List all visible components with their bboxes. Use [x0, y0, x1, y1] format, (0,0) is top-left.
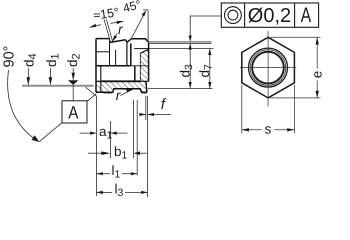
d7 dimension line	[209, 49, 211, 89]
d1 leader	[49, 68, 51, 84]
side view thread wall right	[130, 44, 132, 66]
d3 d7 extension bottom	[148, 88, 213, 90]
d1 arrow	[49, 77, 53, 85]
svg-text:d2: d2	[65, 53, 83, 67]
hexagon outline	[242, 37, 295, 98]
f extension left	[145, 96, 147, 120]
datum leader line	[39, 94, 96, 142]
svg-text:A: A	[301, 4, 311, 27]
r bottom arrow	[126, 89, 133, 92]
side view section top face	[131, 39, 149, 43]
bore circle	[252, 52, 284, 84]
side view section cut face line	[126, 42, 128, 66]
r top leader	[113, 34, 117, 41]
side view washer face line	[134, 48, 148, 50]
side view flange top line	[96, 80, 101, 82]
90° arc arrow	[32, 135, 40, 142]
d4 arrow	[27, 77, 31, 85]
bottom chain extension x=133.4	[132, 100, 134, 158]
e extension top	[270, 36, 320, 38]
side view left facet top edge	[96, 38, 110, 40]
side view flange right edge	[146, 81, 147, 92]
svg-text:l3: l3	[115, 181, 124, 199]
s extension right	[293, 85, 295, 134]
side view thread wall left stub	[115, 50, 117, 66]
15° left arrow	[90, 24, 97, 28]
bottom chain extension x=137.2	[136, 100, 138, 176]
d4 leader	[27, 68, 29, 85]
svg-text:s: s	[265, 122, 272, 137]
weld projection left	[104, 92, 113, 93]
d7 bottom arrow down	[208, 82, 211, 88]
datum stem	[72, 85, 74, 101]
side view hex facet corner line	[109, 39, 111, 67]
d3 bottom arrow down	[189, 82, 192, 88]
side view shoulder line (hex bottom)	[96, 65, 131, 67]
15° arc arrow shafts	[90, 25, 102, 28]
svg-text:90°: 90°	[1, 46, 17, 68]
bottom chain extension x=110.4	[109, 121, 111, 158]
e bottom arrow	[316, 91, 319, 98]
flange section hatching	[96, 82, 147, 92]
d7 top arrow up	[208, 49, 211, 55]
a1 right arrow	[110, 132, 116, 135]
feature control frame	[221, 3, 318, 27]
chamfer circle	[249, 48, 288, 87]
r bottom leader	[121, 89, 133, 95]
side view hole chamfer	[127, 39, 131, 43]
15° extension line right	[106, 19, 112, 41]
l3 left arrow	[96, 191, 102, 194]
centerline horizontal	[240, 67, 296, 69]
thread major arc	[250, 50, 286, 86]
side view bore wall	[134, 66, 136, 82]
b1 left arrow	[101, 151, 110, 155]
e extension bottom	[270, 97, 320, 99]
svg-text:≈15°: ≈15°	[92, 5, 119, 22]
label s	[262, 122, 275, 137]
svg-text:e: e	[309, 71, 324, 79]
45° leader elbow	[143, 10, 148, 42]
b1 dimension line	[88, 152, 102, 154]
90° angle arc	[8, 70, 38, 141]
l3 dimension line	[96, 191, 112, 193]
svg-text:d1: d1	[44, 53, 62, 67]
frame leader arrow down	[189, 36, 192, 42]
centerline vertical	[267, 31, 269, 107]
datum triangle	[68, 80, 78, 85]
l3 right arrow	[141, 191, 147, 194]
a1 dimension line	[80, 132, 97, 134]
f right arrow	[148, 113, 154, 116]
b1 right arrow	[133, 151, 140, 155]
side view left facet chamfer line	[96, 51, 110, 53]
svg-text:A: A	[68, 103, 78, 123]
15° extension line left	[104, 19, 110, 41]
svg-text:d7: d7	[197, 64, 215, 78]
svg-text:r: r	[118, 21, 124, 37]
svg-text:l1: l1	[112, 163, 121, 181]
side view flange bottom with groove	[96, 89, 147, 93]
control frame leader	[190, 16, 221, 38]
side view chamfer diagonal	[140, 49, 148, 53]
f left arrow	[139, 113, 145, 116]
a1 left arrow	[90, 132, 96, 135]
15° right arrow	[117, 21, 124, 24]
45° diagonal arrow	[142, 10, 147, 16]
side view V notch right	[126, 40, 127, 43]
concentricity symbol	[225, 7, 242, 24]
weld projection right	[142, 92, 147, 93]
svg-text:d4: d4	[22, 53, 40, 67]
d7 extension top	[149, 48, 214, 50]
svg-text:b1: b1	[114, 144, 128, 162]
s left arrow	[242, 128, 249, 131]
45° angle diagonal	[131, 13, 145, 40]
d3 dimension line	[189, 43, 191, 88]
svg-text:d3: d3	[178, 64, 196, 78]
side view conical top face (15°)	[110, 40, 126, 43]
side view shoulder line right thin	[131, 65, 149, 67]
f + l3 extension right	[147, 96, 149, 197]
cone flank line	[86, 87, 97, 96]
e top arrow	[316, 37, 319, 44]
l1 dimension line	[96, 173, 110, 175]
s right arrow	[287, 128, 294, 131]
collar section hatch strip	[140, 50, 148, 81]
svg-text:f: f	[161, 96, 167, 113]
l1 right arrow	[131, 172, 137, 175]
e dimension line	[316, 37, 318, 98]
datum box A	[62, 101, 87, 123]
side view hatch boundary	[139, 53, 141, 81]
d2 arrow	[71, 73, 75, 80]
f dimension line	[140, 114, 146, 116]
s dimension line	[242, 129, 295, 131]
svg-text:Ø0,2: Ø0,2	[248, 5, 291, 27]
r top arrow	[112, 35, 117, 41]
side view left silhouette edge	[95, 39, 97, 93]
side view right edge	[148, 43, 150, 82]
d2 leader	[72, 68, 74, 80]
svg-text:45°: 45°	[121, 0, 142, 15]
label e	[309, 69, 324, 81]
d3 top arrow up	[189, 43, 192, 49]
s extension left	[241, 85, 243, 134]
seat face extension line (d4 d1 d2 target)	[22, 85, 94, 87]
l1 left arrow	[96, 172, 102, 175]
flange inner edge line	[100, 66, 102, 93]
d3 extension top (doubled)	[149, 41, 212, 43]
bottom chain extension x=96.4	[95, 96, 97, 196]
